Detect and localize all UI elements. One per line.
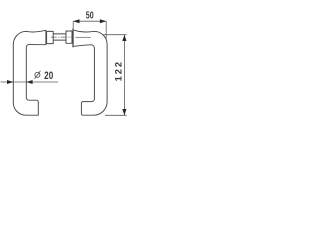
dim 20: left arrowhead (outside, pointing right) xyxy=(7,80,13,84)
dim 122: dimension line xyxy=(123,35,125,116)
left lever outline (side view, grip with return foot to the right) xyxy=(13,30,46,115)
svg-text:122: 122 xyxy=(113,60,124,81)
spindle bottom edge xyxy=(53,39,65,41)
centerline continuation through neck xyxy=(75,36,91,38)
right lever outline (grip with return foot to the left) xyxy=(73,30,107,115)
dim 50: left arrowhead xyxy=(73,19,79,23)
dim 122: bottom extension line xyxy=(105,114,127,116)
dim 122: top arrowhead xyxy=(122,35,126,41)
dim 20: dimension line with leader under text xyxy=(1,81,59,83)
left lever collar xyxy=(47,31,54,43)
spindle top edge xyxy=(53,33,65,35)
dim 20: right arrowhead (outside, pointing left) xyxy=(26,80,32,84)
right lever hub block xyxy=(66,31,72,43)
dim 50: right extension line xyxy=(105,21,107,39)
centerline (spindle axis, dash-dot) xyxy=(51,36,72,38)
right lever rose edge xyxy=(72,29,74,47)
dim 50: dimension line xyxy=(73,20,106,22)
dim 122: bottom arrowhead xyxy=(122,109,126,115)
dim 122: top extension line xyxy=(104,34,127,36)
dim 50: right arrowhead xyxy=(100,19,106,23)
dim 50: left extension line xyxy=(72,21,74,29)
svg-text:20: 20 xyxy=(44,70,53,82)
svg-text:50: 50 xyxy=(86,9,94,20)
dim 20: diameter symbol xyxy=(35,71,41,79)
